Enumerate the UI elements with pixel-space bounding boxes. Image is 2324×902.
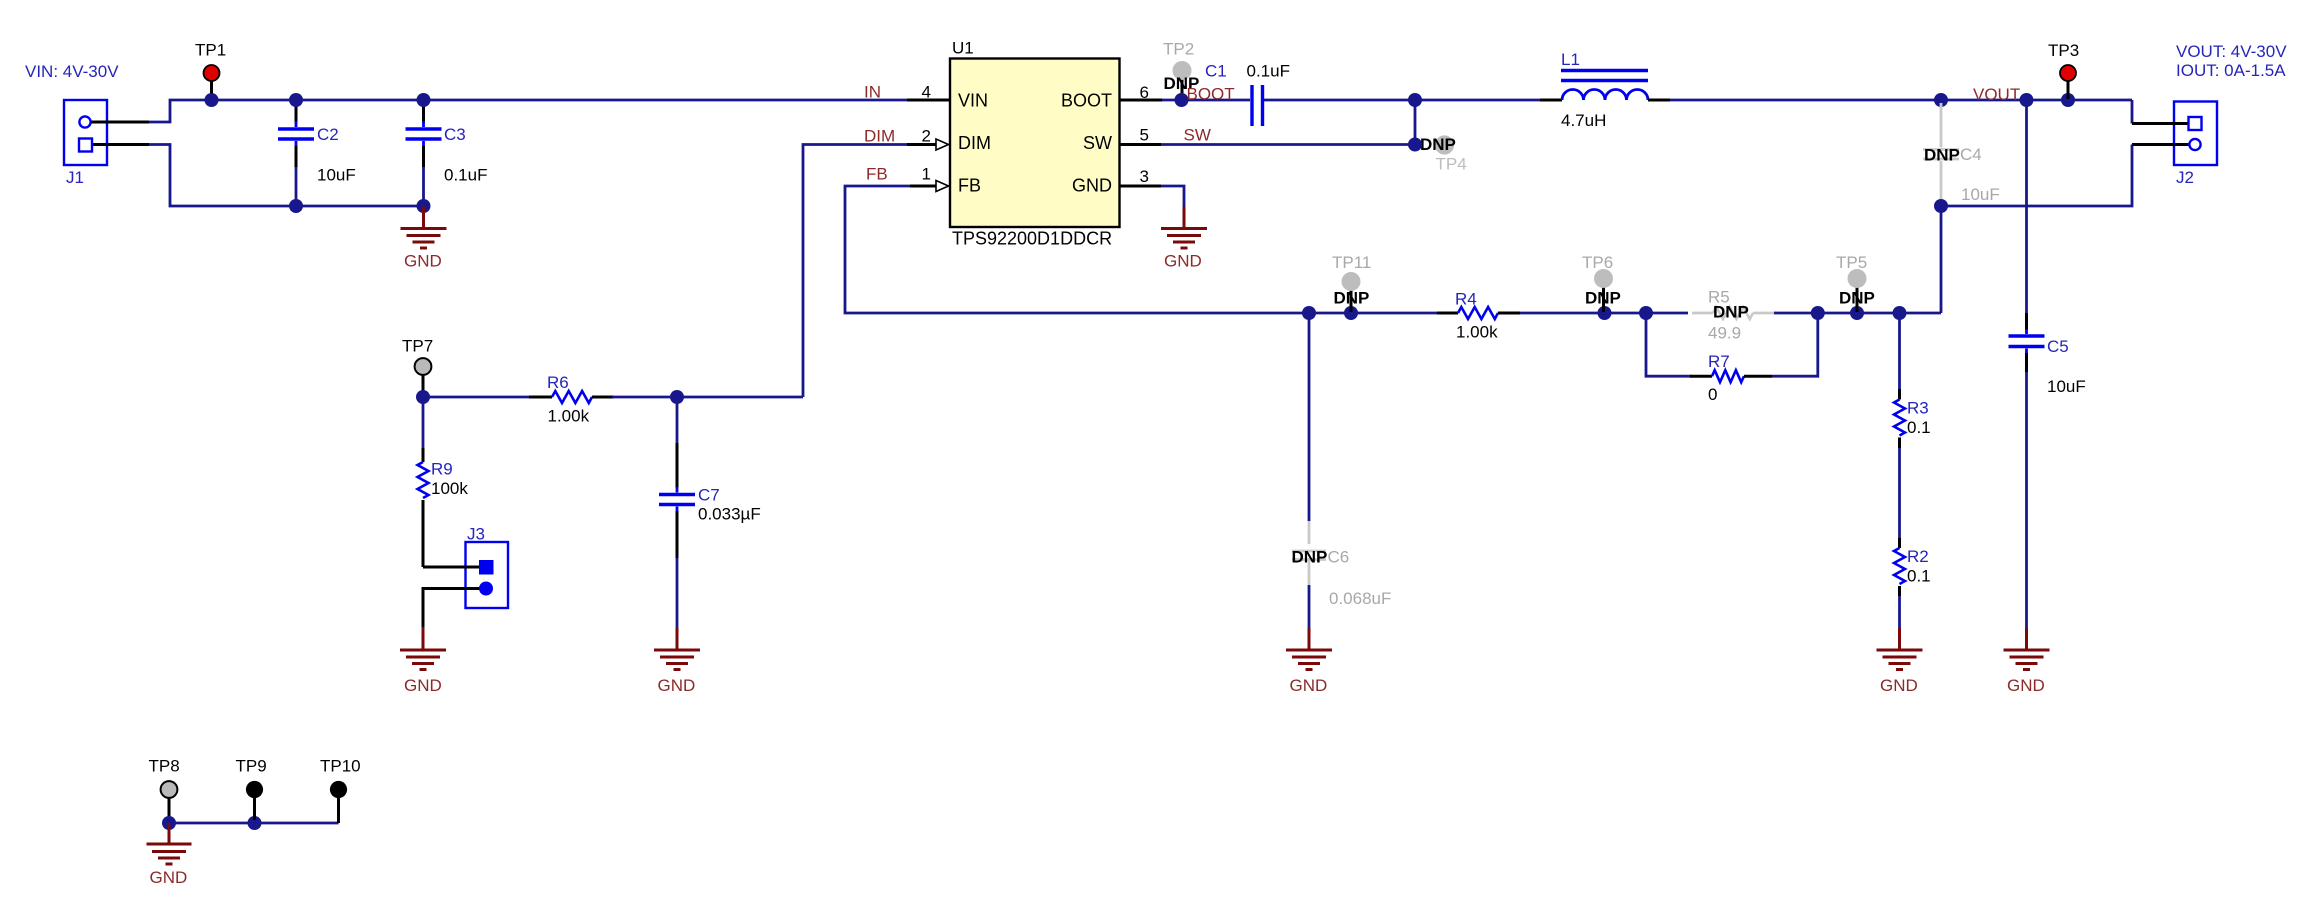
wire R5 to row end (1774, 312, 1941, 315)
pin 3 stub (1120, 185, 1162, 188)
svg-text:GND: GND (404, 676, 442, 695)
resistor R6 (529, 373, 614, 426)
svg-text:SW: SW (1184, 126, 1211, 145)
capacitor C3 (406, 100, 488, 206)
svg-text:10uF: 10uF (2047, 377, 2086, 396)
wire J1 pin1 stub (91, 121, 149, 124)
svg-text:TP6: TP6 (1582, 253, 1613, 272)
testpoint TP2 (DNP) (1163, 40, 1199, 100)
wire J2 pin1 branch (2131, 100, 2134, 124)
svg-text:DNP: DNP (1585, 289, 1621, 308)
svg-text:0.1: 0.1 (1907, 567, 1931, 586)
junction TP5 (1850, 306, 1864, 320)
junction C4 bottom (1934, 199, 1948, 213)
testpoint TP9 (236, 757, 267, 821)
capacitor C2 (278, 100, 356, 206)
wire BOOT to C1 (1162, 99, 1250, 102)
svg-text:TP5: TP5 (1836, 253, 1867, 272)
svg-text:10uF: 10uF (1961, 185, 2000, 204)
svg-text:49.9: 49.9 (1708, 324, 1741, 343)
wire J3 pin2 to ground (423, 589, 480, 628)
junction TP1 (205, 93, 219, 107)
svg-text:0.1uF: 0.1uF (444, 166, 487, 185)
svg-text:DNP: DNP (1839, 289, 1875, 308)
svg-text:0: 0 (1708, 385, 1717, 404)
testpoint TP5 (DNP) (1836, 253, 1875, 312)
svg-text:DNP: DNP (1420, 135, 1456, 154)
svg-text:VOUT: 4V-30V: VOUT: 4V-30V (2176, 42, 2287, 61)
svg-text:J1: J1 (66, 168, 84, 187)
resistor R2 (1894, 538, 1931, 629)
svg-text:BOOT: BOOT (1061, 91, 1112, 111)
wire VIN rail from J1 to U1 pin 4 (149, 100, 907, 122)
svg-text:GND: GND (1072, 176, 1112, 196)
testpoint TP4 (DNP) (1420, 135, 1467, 174)
wire R6 to DIM riser (612, 396, 803, 399)
junction C4 top (1934, 93, 1948, 107)
wire DIM net (803, 145, 907, 398)
wire R3 to R2 (1898, 448, 1901, 540)
ground under pin 3 (1161, 207, 1207, 271)
capacitor C4 (DNP) (1923, 103, 2000, 204)
connector J3 pins (479, 561, 493, 596)
wire L1 to J2 (1670, 99, 2132, 102)
svg-text:VOUT: VOUT (1973, 85, 2020, 104)
wire SW net (1161, 143, 1415, 146)
junction TP11 (1344, 306, 1358, 320)
svg-text:GND: GND (1164, 252, 1202, 271)
svg-text:IOUT: 0A-1.5A: IOUT: 0A-1.5A (2176, 61, 2286, 80)
svg-text:GND: GND (150, 868, 188, 887)
svg-text:R9: R9 (431, 460, 453, 479)
svg-text:C5: C5 (2047, 337, 2069, 356)
junction C7 top (670, 390, 684, 404)
svg-text:TP11: TP11 (1332, 253, 1371, 272)
testpoint TP3 (2048, 41, 2079, 99)
junction TP3 (2061, 93, 2075, 107)
svg-text:4: 4 (922, 83, 931, 102)
connector J2 (2132, 102, 2217, 188)
capacitor C7 (659, 397, 761, 629)
svg-text:R2: R2 (1907, 547, 1929, 566)
wire pin3 to ground (1161, 186, 1184, 209)
svg-text:TP1: TP1 (195, 41, 226, 60)
svg-text:GND: GND (1290, 676, 1328, 695)
junction R3 top (1893, 306, 1907, 320)
connector J3 (466, 525, 509, 609)
wire J1 pin2 stub (93, 143, 149, 146)
junction TP6 (1598, 306, 1612, 320)
resistor R7 (1646, 313, 1818, 404)
svg-text:U1: U1 (952, 39, 974, 58)
resistor R5 (DNP) (1692, 288, 1774, 343)
ground under C3 (401, 207, 447, 271)
svg-text:4.7uH: 4.7uH (1561, 111, 1606, 130)
junction TP9 (248, 816, 262, 830)
capacitor C1 (1205, 62, 1290, 127)
junction BOOT pin (1175, 93, 1189, 107)
inductor L1 (1540, 50, 1670, 130)
junction C3 bottom (417, 199, 431, 213)
wire TP ground bus (169, 822, 339, 825)
svg-text:IN: IN (864, 83, 881, 102)
svg-text:C1: C1 (1205, 62, 1227, 81)
wire BOOT drop to SW (1414, 100, 1417, 145)
junction BOOT/SW drop (1408, 93, 1422, 107)
svg-text:TP2: TP2 (1163, 40, 1194, 59)
svg-text:TP10: TP10 (320, 757, 361, 776)
svg-text:3: 3 (1140, 167, 1149, 186)
svg-text:R3: R3 (1907, 399, 1929, 418)
svg-text:6: 6 (1140, 83, 1149, 102)
svg-text:FB: FB (866, 165, 888, 184)
svg-text:0.1uF: 0.1uF (1247, 62, 1290, 81)
svg-text:TP7: TP7 (402, 337, 433, 356)
capacitor C6 (DNP) (1292, 313, 1392, 629)
svg-text:FB: FB (958, 176, 981, 196)
svg-text:2: 2 (922, 127, 931, 146)
svg-text:GND: GND (404, 252, 442, 271)
ground under C7 (654, 628, 700, 695)
svg-text:0.033µF: 0.033µF (698, 505, 761, 524)
svg-text:BOOT: BOOT (1187, 85, 1235, 104)
svg-text:TP4: TP4 (1436, 155, 1467, 174)
svg-text:DIM: DIM (864, 127, 895, 146)
testpoint TP8 (149, 757, 180, 821)
svg-text:J2: J2 (2176, 168, 2194, 187)
junction FB/C6 (1302, 306, 1316, 320)
svg-text:10uF: 10uF (317, 166, 356, 185)
svg-text:DNP: DNP (1292, 548, 1328, 567)
capacitor C5 (2009, 100, 2086, 629)
svg-text:1.00k: 1.00k (548, 407, 590, 426)
svg-text:100k: 100k (431, 479, 468, 498)
svg-text:1: 1 (922, 165, 931, 184)
svg-text:DNP: DNP (1713, 303, 1749, 322)
svg-text:C2: C2 (317, 125, 339, 144)
resistor R9 (418, 397, 469, 567)
junction TP8 (162, 816, 176, 830)
resistor R4 (1437, 290, 1520, 342)
resistor R3 (1894, 313, 1931, 448)
junction C5 top (2020, 93, 2034, 107)
wire J1 pin2 to GND rail (149, 145, 424, 207)
ground under C5 (2004, 628, 2050, 695)
svg-text:TP3: TP3 (2048, 41, 2079, 60)
junction R7 left (1639, 306, 1653, 320)
svg-text:VIN: 4V-30V: VIN: 4V-30V (25, 62, 119, 81)
svg-text:DIM: DIM (958, 133, 991, 153)
svg-text:R6: R6 (547, 373, 569, 392)
svg-text:R7: R7 (1708, 352, 1730, 371)
svg-text:DNP: DNP (1334, 289, 1370, 308)
svg-text:GND: GND (658, 676, 696, 695)
svg-text:TP9: TP9 (236, 757, 267, 776)
svg-text:GND: GND (1880, 676, 1918, 695)
ground under R2 (1877, 628, 1923, 695)
svg-text:C7: C7 (698, 486, 720, 505)
connector J1 (64, 100, 107, 187)
pin 2 stub (907, 143, 936, 146)
svg-text:R4: R4 (1455, 290, 1477, 309)
svg-text:C3: C3 (444, 125, 466, 144)
junction R7 right (1811, 306, 1825, 320)
testpoint TP6 (DNP) (1582, 253, 1621, 312)
svg-text:DNP: DNP (1924, 146, 1960, 165)
svg-text:VIN: VIN (958, 91, 988, 111)
svg-text:SW: SW (1083, 133, 1112, 153)
svg-text:C6: C6 (1328, 548, 1350, 567)
wire C1 to L1 (1264, 99, 1540, 102)
svg-text:0.068uF: 0.068uF (1329, 589, 1391, 608)
ground under TP8 (147, 823, 192, 887)
wire J2 pin2 branch (1941, 145, 2132, 207)
testpoint TP10 (320, 757, 361, 824)
junction SW (1408, 138, 1422, 152)
pin 1 input triangle (936, 181, 949, 192)
wire C4 bottom to feedback row (1940, 206, 1943, 313)
pin 2 input triangle (936, 139, 949, 150)
svg-text:L1: L1 (1561, 50, 1580, 69)
op-amp U1 TPS92200 (950, 39, 1120, 249)
svg-text:C4: C4 (1960, 145, 1982, 164)
svg-text:TP8: TP8 (149, 757, 180, 776)
testpoint TP7 (402, 337, 433, 397)
svg-text:TPS92200D1DDCR: TPS92200D1DDCR (952, 229, 1112, 249)
junction C3 top (417, 93, 431, 107)
wire FB net down and feedback row (845, 186, 1437, 313)
pin 6 stub (1120, 99, 1163, 102)
pin 1 stub (910, 185, 936, 188)
wire TP7 row to DIM riser (423, 396, 529, 399)
testpoint TP11 (DNP) (1332, 253, 1371, 312)
junction C2 top (289, 93, 303, 107)
wire R4 to R5 (1520, 312, 1688, 315)
svg-text:0.1: 0.1 (1907, 418, 1931, 437)
svg-text:1.00k: 1.00k (1456, 323, 1498, 342)
junction TP7 (416, 390, 430, 404)
ground under C6 (1286, 628, 1332, 695)
junction C2 bottom (289, 199, 303, 213)
ground under J3 (400, 628, 446, 695)
pin 5 stub (1120, 143, 1162, 146)
svg-text:5: 5 (1140, 126, 1149, 145)
svg-text:GND: GND (2007, 676, 2045, 695)
testpoint TP1 (195, 41, 226, 100)
pin 4 stub (907, 99, 950, 102)
svg-text:J3: J3 (467, 525, 485, 544)
wire R9 to J3 pin1 (423, 566, 480, 569)
